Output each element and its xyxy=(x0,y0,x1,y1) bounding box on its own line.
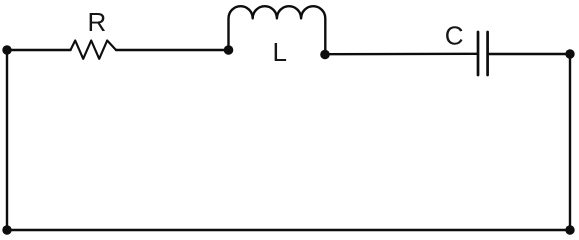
svg-text:L: L xyxy=(273,37,287,67)
wire bottom xyxy=(7,229,570,231)
node A (left, junction R / source loop) xyxy=(2,45,11,54)
capacitor C xyxy=(478,32,488,75)
svg-text:C: C xyxy=(445,21,464,51)
wire right vertical xyxy=(569,54,571,230)
inductor L xyxy=(229,6,326,54)
node B (top right) xyxy=(565,49,574,58)
wire left vertical xyxy=(6,50,8,230)
node between R and L xyxy=(224,45,234,55)
wire inductor to capacitor xyxy=(325,53,477,56)
wire capacitor to node B xyxy=(489,53,570,55)
resistor R xyxy=(71,41,117,59)
wire resistor to inductor xyxy=(116,49,229,51)
wire top-left (node A to resistor) xyxy=(7,49,71,51)
node between L and C xyxy=(320,50,330,60)
node bottom right xyxy=(565,225,574,234)
svg-text:R: R xyxy=(88,7,107,37)
node bottom left xyxy=(2,225,11,234)
